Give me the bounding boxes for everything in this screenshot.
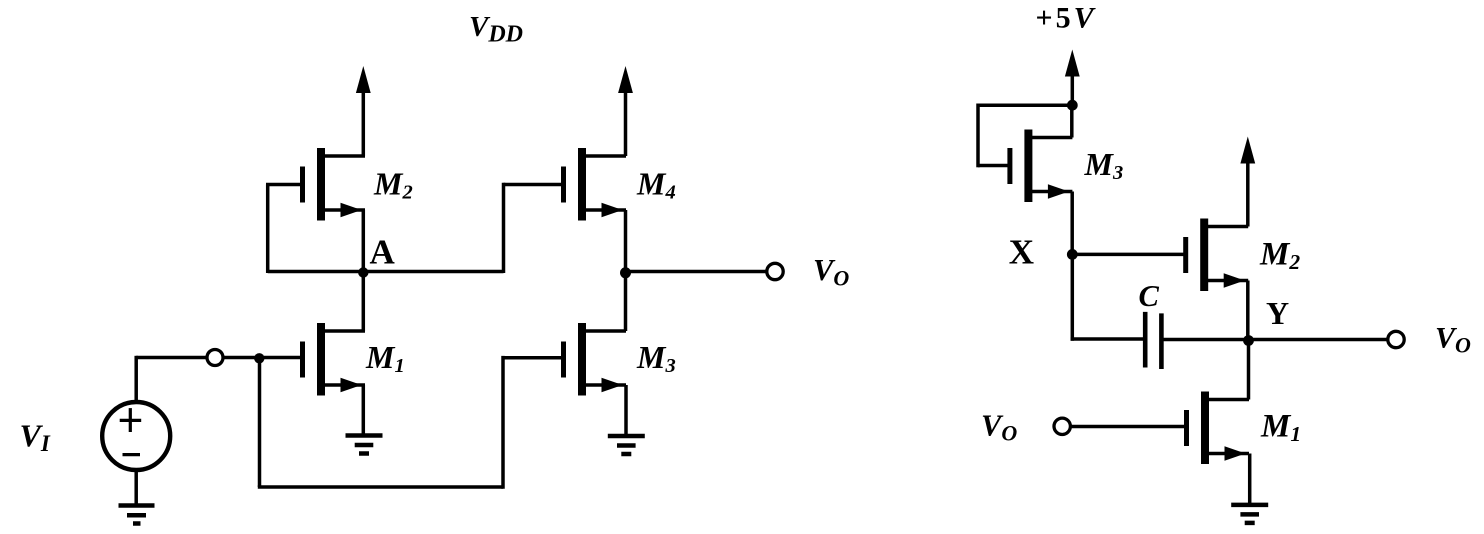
svg-text:X: X xyxy=(1009,233,1034,272)
svg-text:M3: M3 xyxy=(1084,146,1124,184)
svg-text:M2: M2 xyxy=(373,166,413,204)
svg-text:VO: VO xyxy=(1435,322,1471,358)
svg-text:VI: VI xyxy=(20,418,51,457)
svg-text:M1: M1 xyxy=(365,339,405,377)
svg-text:+5V: +5V xyxy=(1036,2,1097,35)
svg-text:VO: VO xyxy=(981,409,1017,446)
svg-text:C: C xyxy=(1139,279,1160,313)
svg-text:A: A xyxy=(370,232,396,271)
svg-text:M1: M1 xyxy=(1260,409,1301,447)
svg-text:M3: M3 xyxy=(636,339,676,377)
svg-text:VO: VO xyxy=(813,253,849,291)
svg-text:Y: Y xyxy=(1266,295,1289,331)
svg-text:VDD: VDD xyxy=(469,11,523,48)
svg-text:M4: M4 xyxy=(636,166,676,204)
svg-text:M2: M2 xyxy=(1259,237,1300,275)
